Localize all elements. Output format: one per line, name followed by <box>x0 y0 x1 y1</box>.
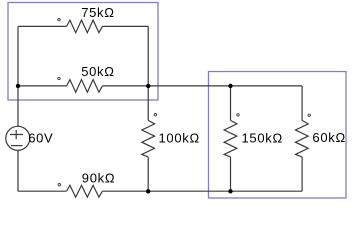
wire 60k branch upper segment to R5 <box>301 86 303 121</box>
terminal marker of R5 <box>308 114 310 116</box>
svg-text:100kΩ: 100kΩ <box>159 130 200 145</box>
resistor R6 90kΩ zigzag <box>67 185 103 197</box>
svg-text:60kΩ: 60kΩ <box>312 130 345 145</box>
terminal marker of R2 <box>58 77 60 79</box>
svg-text:50kΩ: 50kΩ <box>81 64 114 79</box>
junction node D (x=148, bottom rail) <box>146 189 150 193</box>
junction node A (left, middle rail) <box>16 84 20 88</box>
terminal marker of R3 <box>154 114 156 116</box>
resistor R1 75kΩ zigzag <box>67 20 103 33</box>
terminal marker of R1 <box>58 18 60 20</box>
wire middle row from R2 to node B and across to right branch <box>102 85 302 87</box>
wire bottom rail from R6 across to 60k branch <box>102 190 302 192</box>
wire top row left segment to R1 <box>18 25 67 27</box>
wire node A to V1 top <box>17 86 19 126</box>
resistor R4 150kΩ zigzag <box>224 120 237 156</box>
resistor R3 100kΩ zigzag <box>142 120 155 156</box>
wire 150k branch lower segment from R4 <box>230 157 232 191</box>
enclosure box B1 (top-left series pair outline) <box>8 3 158 101</box>
wire middle branch upper segment to R3 <box>147 86 149 121</box>
wire V1 bottom to bottom rail <box>17 150 19 191</box>
wire top-left vertical (node A down left side) <box>17 26 19 86</box>
voltage source V1 plus sign <box>10 130 23 139</box>
wire middle branch lower segment from R3 <box>147 157 149 191</box>
resistor R2 50kΩ zigzag <box>67 80 103 93</box>
wire 150k branch upper segment to R4 <box>230 86 232 121</box>
junction node E (x=230, bottom rail) <box>228 189 232 193</box>
junction node B (x=148, middle rail) <box>146 84 150 88</box>
svg-text:75kΩ: 75kΩ <box>81 5 114 20</box>
wire middle row left segment to R2 <box>18 85 67 87</box>
terminal marker of R4 <box>237 114 239 116</box>
voltage source V1 60V circle <box>6 126 30 150</box>
junction node C (x=230, middle rail) <box>228 84 232 88</box>
svg-text:150kΩ: 150kΩ <box>242 130 283 145</box>
wire bottom rail left segment to R6 <box>18 190 67 192</box>
resistor R5 60kΩ zigzag <box>295 120 308 156</box>
wire right side of top loop down to node B <box>147 26 149 86</box>
terminal marker of R6 <box>58 184 60 186</box>
svg-text:90kΩ: 90kΩ <box>82 171 115 186</box>
voltage source V1 minus sign <box>11 145 23 147</box>
enclosure box B2 (right parallel pair outline) <box>209 72 347 199</box>
wire 60k branch lower segment from R5 <box>301 157 303 191</box>
wire top row right segment from R1 <box>102 25 148 27</box>
svg-text:60V: 60V <box>28 130 53 145</box>
